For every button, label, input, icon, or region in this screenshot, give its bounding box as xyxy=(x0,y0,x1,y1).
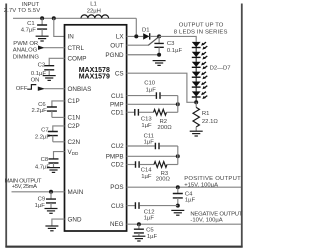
node input rail xyxy=(13,17,136,19)
LED D7 xyxy=(192,91,208,99)
node CU3 junction xyxy=(176,204,180,208)
ground C9 xyxy=(45,209,58,214)
node PMP junction xyxy=(176,102,180,106)
wire MAIN xyxy=(12,191,65,193)
svg-text:C8: C8 xyxy=(41,157,49,163)
node POS junction xyxy=(176,185,180,189)
wire C2P xyxy=(53,126,65,132)
svg-text:LX: LX xyxy=(116,34,125,41)
node NEG junction xyxy=(137,222,141,226)
wire GND pin xyxy=(52,219,65,226)
wire PMPB xyxy=(127,155,178,157)
node D1 cathode junction xyxy=(157,34,161,38)
svg-text:1µF: 1µF xyxy=(185,198,196,204)
inductor L1 xyxy=(81,15,109,18)
wire CS feedback xyxy=(127,73,197,102)
wire LX xyxy=(127,35,143,37)
svg-text:ONBIAS: ONBIAS xyxy=(68,86,92,93)
LED D2 xyxy=(192,42,208,50)
svg-text:1µF: 1µF xyxy=(146,88,157,94)
wire CD2 xyxy=(127,164,135,166)
wire charge pump 2 vertical xyxy=(177,146,179,165)
capacitor C10 xyxy=(156,92,160,99)
svg-text:2.7V TO 5.5V: 2.7V TO 5.5V xyxy=(4,8,40,14)
ground C2 xyxy=(43,76,56,81)
capacitor C2 xyxy=(44,66,54,70)
svg-text:1µF: 1µF xyxy=(147,234,158,240)
ground PGND xyxy=(153,61,166,66)
wire CU3 xyxy=(127,205,135,207)
LED D6 xyxy=(192,82,208,90)
svg-text:1µF: 1µF xyxy=(144,216,155,222)
svg-text:VDD: VDD xyxy=(68,149,80,156)
wire NEG xyxy=(127,223,241,225)
wire LED chain spine xyxy=(195,42,197,102)
svg-text:CD2: CD2 xyxy=(111,162,124,169)
ground C8 xyxy=(47,168,60,173)
node PGND junction xyxy=(157,53,161,57)
svg-text:POSITIVE OUTPUT: POSITIVE OUTPUT xyxy=(184,176,241,182)
resistor R3 xyxy=(154,162,167,168)
svg-text:COMP: COMP xyxy=(68,56,87,63)
svg-text:CU1: CU1 xyxy=(111,93,124,100)
ground C1 xyxy=(36,36,49,41)
svg-text:C7: C7 xyxy=(41,127,49,133)
svg-text:4.7µF: 4.7µF xyxy=(21,28,37,34)
svg-text:MAX1579: MAX1579 xyxy=(79,73,110,80)
svg-text:MAIN: MAIN xyxy=(68,189,84,196)
wire LED rail xyxy=(159,36,196,42)
LED D3 xyxy=(192,52,208,60)
resistor R2 xyxy=(154,109,167,115)
svg-text:DIMMING: DIMMING xyxy=(13,54,40,60)
svg-text:C6: C6 xyxy=(38,102,46,108)
LED D4 xyxy=(192,62,208,70)
svg-text:PMPB: PMPB xyxy=(106,154,124,161)
svg-text:2.2µF: 2.2µF xyxy=(32,108,48,114)
svg-text:1µF: 1µF xyxy=(144,140,155,146)
svg-text:CD1: CD1 xyxy=(111,110,124,117)
wire VDD xyxy=(54,152,65,159)
wire PGND xyxy=(127,54,160,56)
wire COMP xyxy=(49,58,64,65)
frame border xyxy=(6,4,242,247)
capacitor C14 xyxy=(136,161,140,168)
ground GND pin xyxy=(45,226,58,231)
wire CU1 xyxy=(127,95,156,97)
svg-text:C9: C9 xyxy=(38,197,46,203)
svg-text:PMP: PMP xyxy=(110,102,124,109)
wire CU2 xyxy=(127,145,155,147)
svg-text:C5: C5 xyxy=(146,228,154,234)
svg-text:C1P: C1P xyxy=(68,98,80,105)
svg-text:OFF: OFF xyxy=(16,86,28,92)
svg-text:C12: C12 xyxy=(144,210,155,216)
svg-text:C2P: C2P xyxy=(68,123,80,130)
wire ONBIAS xyxy=(45,88,65,90)
svg-text:C11: C11 xyxy=(144,133,154,139)
svg-text:CTRL: CTRL xyxy=(68,45,85,52)
capacitor C3 xyxy=(158,36,160,43)
wire CTRL input arrow xyxy=(38,46,45,50)
svg-text:C10: C10 xyxy=(144,80,156,86)
capacitor C12 xyxy=(135,202,139,209)
node LX junction xyxy=(134,34,138,38)
svg-text:22.1Ω: 22.1Ω xyxy=(202,119,218,125)
svg-text:1µF: 1µF xyxy=(141,123,152,129)
capacitor C13 xyxy=(135,109,139,116)
svg-text:C13: C13 xyxy=(141,116,153,122)
wire OUT xyxy=(127,44,149,46)
svg-text:D2—D7: D2—D7 xyxy=(210,65,231,71)
capacitor C5 xyxy=(138,224,140,229)
ground C4 xyxy=(171,210,184,215)
ground C5 xyxy=(132,236,145,241)
resistor R1 xyxy=(195,102,197,107)
svg-text:IN: IN xyxy=(68,34,75,41)
wire OUT diagonal xyxy=(148,37,158,45)
svg-text:L1: L1 xyxy=(90,1,97,7)
node PMPB junction xyxy=(176,154,180,158)
svg-text:CU3: CU3 xyxy=(111,203,124,210)
node input junction C1 xyxy=(40,16,44,20)
capacitor C1 xyxy=(37,25,47,29)
capacitor C7 xyxy=(48,132,58,136)
ground R1 xyxy=(190,131,203,136)
svg-text:D1: D1 xyxy=(142,28,150,34)
svg-text:C2N: C2N xyxy=(68,139,81,146)
node LED bottom junction xyxy=(194,100,198,104)
svg-text:POS: POS xyxy=(110,184,123,191)
svg-text:200Ω: 200Ω xyxy=(157,125,172,131)
svg-text:1µF: 1µF xyxy=(35,203,46,209)
wire CTRL xyxy=(44,47,65,49)
wire C1N xyxy=(52,116,65,118)
capacitor C9 xyxy=(50,192,52,199)
svg-text:0.1µF: 0.1µF xyxy=(167,48,183,54)
svg-text:C4: C4 xyxy=(185,191,193,197)
svg-text:NEG: NEG xyxy=(110,221,124,228)
svg-text:22µH: 22µH xyxy=(87,8,101,14)
node MAIN junction xyxy=(49,190,53,194)
wire CD1 xyxy=(127,111,135,113)
capacitor C8 xyxy=(49,159,59,163)
svg-text:C1: C1 xyxy=(27,21,35,27)
svg-text:PGND: PGND xyxy=(105,52,124,59)
capacitor C4 xyxy=(177,187,179,193)
wire POS xyxy=(127,186,241,188)
wire ONBIAS arrow xyxy=(38,87,45,91)
wire IN branch xyxy=(54,18,65,36)
svg-text:ON: ON xyxy=(31,77,40,83)
svg-text:+5V, 25mA: +5V, 25mA xyxy=(12,184,37,190)
capacitor C11 xyxy=(155,143,159,150)
capacitor C6 xyxy=(47,107,57,111)
wire LX drop from rail xyxy=(135,18,137,36)
wire charge pump 1 vertical xyxy=(177,96,179,113)
wire C2N xyxy=(53,141,65,143)
svg-text:GND: GND xyxy=(68,216,82,223)
svg-text:C2: C2 xyxy=(38,63,46,69)
wire C1P xyxy=(52,101,65,107)
svg-text:R1: R1 xyxy=(202,111,210,117)
svg-text:ANALOG: ANALOG xyxy=(13,48,38,54)
svg-text:C14: C14 xyxy=(141,168,153,174)
svg-text:-10V, 100µA: -10V, 100µA xyxy=(190,218,222,224)
node input junction IN xyxy=(52,16,56,20)
svg-text:R2: R2 xyxy=(160,119,168,125)
svg-text:2.2µF: 2.2µF xyxy=(35,135,51,141)
svg-text:C1N: C1N xyxy=(68,115,81,122)
svg-text:200Ω: 200Ω xyxy=(156,177,171,183)
svg-text:NEGATIVE OUTPUT: NEGATIVE OUTPUT xyxy=(190,211,242,217)
svg-text:C3: C3 xyxy=(167,41,175,47)
svg-text:PWM OR: PWM OR xyxy=(13,41,38,47)
svg-text:CU2: CU2 xyxy=(111,143,124,150)
IC U1 MAX1578/MAX1579 xyxy=(65,25,127,231)
svg-text:1µF: 1µF xyxy=(141,174,152,180)
svg-text:CS: CS xyxy=(115,70,124,77)
svg-text:8 LEDS IN SERIES: 8 LEDS IN SERIES xyxy=(174,29,228,35)
svg-text:OUT: OUT xyxy=(110,42,123,49)
wire C1 lead xyxy=(41,18,43,25)
LED D5 xyxy=(192,72,208,80)
svg-text:OUTPUT UP TO: OUTPUT UP TO xyxy=(179,23,224,29)
wire PMP xyxy=(127,103,178,105)
